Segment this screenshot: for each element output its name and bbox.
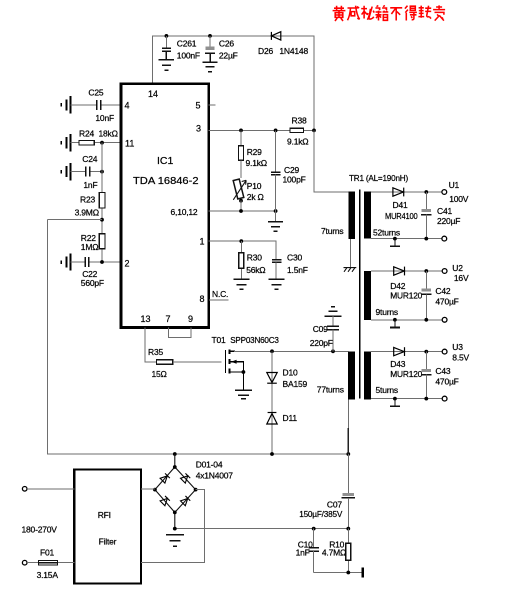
junction dot P10 on row bbox=[239, 209, 243, 213]
svg-text:10nF: 10nF bbox=[95, 113, 114, 123]
fuse F01 bbox=[39, 560, 58, 565]
ground at bridge minus bbox=[166, 535, 184, 546]
svg-text:56kΩ: 56kΩ bbox=[246, 265, 265, 275]
svg-text:MUR120: MUR120 bbox=[390, 291, 422, 301]
junction dot C42 bottom bbox=[424, 318, 428, 322]
diode D41 MUR4100 bbox=[393, 188, 404, 197]
svg-text:MUR120: MUR120 bbox=[390, 369, 422, 379]
svg-text:5turns: 5turns bbox=[376, 385, 398, 395]
svg-text:11: 11 bbox=[125, 138, 134, 148]
junction dot C261 top bbox=[165, 34, 169, 38]
ground under C26 bbox=[202, 62, 217, 71]
svg-text:77turns: 77turns bbox=[317, 385, 344, 395]
resistor R35 bbox=[157, 360, 173, 365]
svg-text:Filter: Filter bbox=[99, 537, 117, 547]
svg-text:SPP03N60C3: SPP03N60C3 bbox=[230, 335, 279, 345]
svg-text:470µF: 470µF bbox=[435, 296, 458, 306]
svg-text:C43: C43 bbox=[435, 366, 450, 376]
TR1 secondary winding 9turns bbox=[364, 271, 371, 320]
svg-text:3.15A: 3.15A bbox=[37, 570, 59, 580]
wire pins 7-9 link bbox=[169, 328, 192, 338]
ground bar U1 return bbox=[390, 239, 400, 247]
junction dot C29 bottom bbox=[274, 209, 278, 213]
junction dot C29 top bbox=[274, 129, 278, 133]
svg-text:100pF: 100pF bbox=[283, 174, 306, 184]
capacitor C42 electrolytic bbox=[421, 271, 432, 320]
svg-text:MUR4100: MUR4100 bbox=[385, 211, 418, 221]
wire drain node row bbox=[234, 350, 348, 352]
svg-text:C24: C24 bbox=[82, 154, 97, 164]
wire 77turns bottom to C07 bbox=[347, 399, 349, 428]
bridge diode top-right bbox=[180, 473, 190, 483]
junction dot R29 top bbox=[239, 129, 243, 133]
svg-text:18kΩ: 18kΩ bbox=[99, 128, 118, 138]
terminal U1 return bbox=[442, 236, 447, 241]
svg-text:1nF: 1nF bbox=[296, 548, 310, 558]
capacitor C30 bbox=[272, 260, 282, 280]
svg-text:8.5V: 8.5V bbox=[452, 352, 469, 362]
svg-text:16V: 16V bbox=[454, 273, 469, 283]
resistor R22 bbox=[99, 234, 105, 249]
wire RFI to bridge left bbox=[141, 488, 155, 490]
ground under C29 bbox=[268, 222, 283, 231]
wire bridge to C07 bottom row bbox=[175, 528, 348, 530]
svg-text:8: 8 bbox=[200, 294, 205, 304]
svg-text:9.1kΩ: 9.1kΩ bbox=[287, 136, 308, 146]
svg-text:TDA 16846-2: TDA 16846-2 bbox=[133, 175, 199, 187]
svg-text:R30: R30 bbox=[247, 252, 262, 262]
junction dot T01 source bbox=[242, 370, 246, 374]
input tap symbol pin4 row bbox=[61, 96, 70, 113]
wire P10 to 6,10,12 rail bbox=[240, 201, 242, 211]
svg-text:1MΩ: 1MΩ bbox=[81, 242, 99, 252]
svg-text:TR1 (AL=190nH): TR1 (AL=190nH) bbox=[349, 173, 408, 183]
inverted ground above C09 bbox=[325, 307, 342, 316]
wire top rail pin14 to D26 node bbox=[153, 36, 314, 130]
svg-text:P10: P10 bbox=[247, 181, 262, 191]
junction dot U1 gnd bbox=[393, 237, 397, 241]
svg-text:1: 1 bbox=[200, 237, 205, 247]
junction dot C43 bottom bbox=[424, 397, 428, 401]
ground bar U2 return bbox=[390, 320, 400, 328]
RFI filter box bbox=[74, 470, 141, 584]
junction dot R23/R22 node bbox=[100, 218, 104, 222]
TR1 core line bbox=[359, 190, 361, 399]
capacitor C26 electrolytic bbox=[205, 36, 215, 62]
transistor T01 MOSFET SPP03N60C3 bbox=[226, 349, 244, 390]
junction dot C41 top bbox=[424, 190, 428, 194]
resistor R30 bbox=[239, 241, 244, 279]
svg-text:IC1: IC1 bbox=[157, 155, 174, 167]
wire C10 bottom row bbox=[314, 572, 363, 574]
wire U2 bottom row bbox=[371, 319, 442, 321]
svg-text:U3: U3 bbox=[452, 342, 463, 352]
wire RFI to bridge right bbox=[141, 490, 204, 563]
wire C24 row bbox=[71, 171, 103, 173]
svg-text:220pF: 220pF bbox=[310, 338, 333, 348]
svg-text:D41: D41 bbox=[393, 200, 408, 210]
diode D10 BA159 bbox=[267, 373, 277, 384]
junction dot bridge minus node bbox=[173, 527, 177, 531]
junction dot C41 bottom bbox=[424, 237, 428, 241]
svg-text:1N4148: 1N4148 bbox=[279, 46, 308, 56]
capacitor C07 electrolytic bbox=[342, 493, 355, 529]
wire R29 branch bbox=[240, 130, 242, 145]
capacitor C41 electrolytic bbox=[421, 192, 432, 239]
svg-text:52turns: 52turns bbox=[373, 227, 400, 237]
junction dot C07 top node bbox=[346, 452, 350, 456]
svg-text:1.5nF: 1.5nF bbox=[287, 265, 308, 275]
junction dot snubber bottom bbox=[270, 452, 274, 456]
wire pin13 down to R35 bbox=[145, 328, 157, 363]
resistor R38 bbox=[290, 128, 304, 132]
ground under T01 source bbox=[235, 390, 252, 399]
svg-text:22µF: 22µF bbox=[219, 50, 238, 60]
svg-text:9turns: 9turns bbox=[376, 307, 398, 317]
junction dot C42 top bbox=[424, 269, 428, 273]
op-amp/controller IC1 TDA16846-2 box bbox=[121, 84, 209, 328]
junction dot C26 top bbox=[208, 34, 212, 38]
svg-text:1nF: 1nF bbox=[83, 180, 97, 190]
svg-text:C30: C30 bbox=[287, 252, 302, 262]
svg-text:D26: D26 bbox=[258, 46, 273, 56]
svg-text:2: 2 bbox=[125, 259, 130, 269]
svg-text:U2: U2 bbox=[452, 263, 463, 273]
capacitor C29 bbox=[271, 130, 281, 221]
junction dot R10 bottom bbox=[346, 571, 350, 575]
pin 8 N.C. stub wire bbox=[209, 299, 229, 301]
svg-text:F01: F01 bbox=[40, 548, 55, 558]
resistor R29 bbox=[239, 146, 244, 161]
svg-text:7: 7 bbox=[166, 314, 171, 324]
svg-text:C25: C25 bbox=[88, 88, 103, 98]
resistor R24 bbox=[79, 140, 94, 145]
junction dot R30 top bbox=[239, 239, 243, 243]
wire pin11 bbox=[71, 142, 122, 144]
junction dot C24 bbox=[100, 170, 104, 174]
wire pin2 bbox=[71, 261, 122, 263]
svg-text:220µF: 220µF bbox=[437, 216, 460, 226]
wire AC bottom with fuse bbox=[27, 562, 74, 564]
svg-text:2k Ω: 2k Ω bbox=[247, 192, 264, 202]
junction dot C09 bottom bbox=[331, 349, 335, 353]
wire pin3 row bbox=[209, 129, 314, 131]
svg-text:470µF: 470µF bbox=[435, 377, 458, 387]
svg-text:C261: C261 bbox=[177, 39, 197, 49]
svg-text:C07: C07 bbox=[327, 499, 342, 509]
svg-text:3.9MΩ: 3.9MΩ bbox=[75, 208, 99, 218]
svg-text:180-270V: 180-270V bbox=[22, 525, 58, 535]
bridge diode bottom-right bbox=[180, 496, 190, 506]
svg-text:R29: R29 bbox=[247, 147, 262, 157]
capacitor C22 bbox=[85, 257, 89, 267]
svg-text:5: 5 bbox=[196, 101, 201, 111]
input tap symbol pin11 row bbox=[61, 134, 70, 151]
svg-text:R38: R38 bbox=[292, 115, 307, 125]
wire pin4 bbox=[71, 104, 122, 106]
capacitor C25 bbox=[97, 100, 101, 110]
wire primary bottom to chassis bbox=[349, 239, 351, 267]
wire left rail bbox=[48, 220, 349, 454]
svg-text:D42: D42 bbox=[390, 281, 405, 291]
junction dot R24/pin11 bbox=[100, 141, 104, 145]
svg-text:100nF: 100nF bbox=[177, 50, 200, 60]
svg-text:9: 9 bbox=[188, 314, 193, 324]
capacitor C24 bbox=[86, 167, 90, 177]
svg-text:BA159: BA159 bbox=[283, 379, 308, 389]
svg-text:R24: R24 bbox=[79, 128, 94, 138]
ground under R30 bbox=[233, 279, 249, 289]
svg-text:14: 14 bbox=[148, 89, 158, 99]
svg-text:100V: 100V bbox=[449, 194, 469, 204]
diode D11 bbox=[267, 413, 277, 425]
wire snubber vertical x272 bbox=[271, 351, 273, 454]
svg-text:R23: R23 bbox=[80, 195, 95, 205]
TR1 primary winding 7turns bbox=[348, 192, 355, 240]
svg-text:4: 4 bbox=[125, 101, 130, 111]
terminal U2 bbox=[442, 269, 447, 274]
TR1 secondary winding 52turns bbox=[364, 192, 371, 239]
svg-text:RFI: RFI bbox=[98, 510, 111, 520]
svg-text:C26: C26 bbox=[219, 39, 234, 49]
wire R23 node to left rail bbox=[48, 219, 103, 221]
junction dot drain / D10 bbox=[270, 349, 274, 353]
junction dot R38 right bbox=[312, 129, 316, 133]
svg-text:C42: C42 bbox=[435, 286, 450, 296]
terminal bar bottom right bbox=[361, 568, 364, 578]
svg-text:R35: R35 bbox=[148, 347, 163, 357]
watermark text (red, hand-drawn CJK strokes) bbox=[333, 5, 446, 21]
terminal AC input top bbox=[22, 487, 27, 492]
terminal U3 return bbox=[442, 396, 447, 401]
svg-text:6,10,12: 6,10,12 bbox=[171, 207, 198, 217]
junction dot C43 top bbox=[424, 350, 428, 354]
junction dot C10 top bbox=[312, 527, 316, 531]
junction dot U2 gnd bbox=[393, 318, 397, 322]
terminal U1 bbox=[442, 190, 447, 195]
svg-text:C09: C09 bbox=[313, 324, 328, 334]
svg-text:D01-04: D01-04 bbox=[196, 460, 223, 470]
ground under C261 bbox=[159, 60, 174, 70]
terminal U2 return bbox=[442, 317, 447, 322]
pin 5 stub wire bbox=[209, 104, 216, 106]
ground under C30 bbox=[269, 279, 285, 289]
wire U2 top row bbox=[371, 270, 442, 272]
svg-text:4.7MΩ: 4.7MΩ bbox=[322, 548, 346, 558]
wire pins 6,10,12 row bbox=[209, 210, 276, 212]
wire D26 node down to primary top bbox=[314, 130, 348, 192]
capacitor C10 bbox=[309, 529, 319, 573]
svg-text:560pF: 560pF bbox=[81, 278, 104, 288]
bridge rectifier D01-04 diamond bbox=[155, 454, 196, 529]
wire vertical divider x102 bbox=[101, 143, 103, 262]
terminal AC input bottom bbox=[22, 560, 27, 565]
junction dot C07 bottom bbox=[346, 527, 350, 531]
svg-text:4x1N4007: 4x1N4007 bbox=[196, 470, 234, 480]
wire U3 top row bbox=[371, 351, 442, 353]
svg-text:C29: C29 bbox=[284, 165, 299, 175]
resistor R10 bbox=[346, 529, 351, 573]
svg-text:7turns: 7turns bbox=[321, 226, 343, 236]
bridge diode top-left bbox=[160, 473, 170, 483]
resistor R23 bbox=[99, 193, 105, 209]
capacitor C43 electrolytic bbox=[421, 352, 432, 399]
wire R35 to gate bbox=[173, 361, 222, 363]
svg-text:9.1kΩ: 9.1kΩ bbox=[246, 158, 267, 168]
svg-text:D10: D10 bbox=[283, 368, 298, 378]
potentiometer P10 bbox=[233, 160, 246, 200]
svg-text:13: 13 bbox=[141, 314, 151, 324]
svg-text:150µF/385V: 150µF/385V bbox=[299, 509, 342, 519]
diode D42 MUR120 bbox=[394, 267, 405, 276]
wire U3 bottom row bbox=[371, 398, 442, 400]
junction dot U3 gnd bbox=[393, 397, 397, 401]
svg-text:15Ω: 15Ω bbox=[152, 369, 167, 379]
svg-text:U1: U1 bbox=[449, 180, 460, 190]
svg-text:3: 3 bbox=[196, 124, 201, 134]
capacitor C09 bbox=[327, 316, 339, 351]
ground bar U3 return bbox=[390, 399, 400, 407]
junction dot bridge plus node bbox=[173, 452, 177, 456]
bridge diode bottom-left bbox=[160, 496, 170, 506]
wire AC top to RFI bbox=[27, 488, 74, 490]
svg-text:T01: T01 bbox=[212, 335, 227, 345]
junction dots bridge vertices bbox=[173, 465, 177, 469]
input tap symbol C24 row bbox=[61, 163, 70, 180]
diode D43 MUR120 bbox=[394, 347, 405, 356]
wire pin1 row bbox=[209, 241, 277, 260]
terminal U3 bbox=[442, 349, 447, 354]
svg-text:D43: D43 bbox=[390, 359, 405, 369]
chassis ground TR1 primary bbox=[344, 268, 357, 272]
wire U1 bottom row bbox=[371, 238, 442, 240]
diode D26 1N4148 bbox=[271, 32, 280, 40]
TR1 primary winding 77turns bbox=[348, 351, 355, 399]
TR1 secondary winding 5turns bbox=[364, 352, 371, 400]
svg-text:D11: D11 bbox=[283, 413, 298, 423]
wire U1 top row bbox=[371, 191, 442, 193]
svg-text:C41: C41 bbox=[437, 206, 452, 216]
junction dot C22/pin2 bbox=[100, 260, 104, 264]
junction dot P10 bottom bbox=[239, 199, 243, 203]
input tap symbol C22 row bbox=[61, 253, 70, 270]
capacitor C261 bbox=[162, 36, 171, 60]
svg-text:N.C.: N.C. bbox=[212, 289, 228, 299]
